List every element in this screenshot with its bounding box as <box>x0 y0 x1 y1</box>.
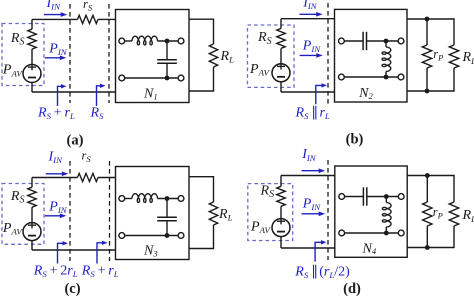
wire node to capacitor (c) <box>166 199 168 218</box>
svg-text:N1: N1 <box>143 87 158 102</box>
resistor rS (a) <box>78 15 99 23</box>
svg-text:RL: RL <box>462 208 474 224</box>
wire top source to rS (a) <box>32 18 78 20</box>
wire top source to N2 (b) <box>281 18 335 20</box>
capacitor series (d) <box>363 187 366 205</box>
resistor rS (c) <box>78 173 99 181</box>
wire bottom row (c) <box>125 235 178 237</box>
svg-text:PAV: PAV <box>2 63 23 79</box>
wire RS to source (b) <box>280 48 282 63</box>
svg-text:rP: rP <box>433 47 443 63</box>
node rP top (b) <box>425 17 430 22</box>
wire rS to N3 (c) <box>98 177 116 179</box>
wire source bottom (c) <box>31 241 33 250</box>
svg-text:RS ∥ (rL/2): RS ∥ (rL/2) <box>294 264 350 280</box>
svg-text:PIN: PIN <box>48 42 67 58</box>
resistor RL (c) <box>209 202 217 225</box>
svg-text:N3: N3 <box>143 244 158 259</box>
node top junction (c) <box>165 196 170 201</box>
wire node to capacitor (a) <box>166 41 168 60</box>
svg-text:RS: RS <box>10 31 25 48</box>
arrow IIN (a) <box>44 12 67 17</box>
port terminal bottom-right (d) <box>398 230 404 236</box>
wire source top (c) <box>31 178 33 188</box>
svg-text:IIN: IIN <box>302 0 318 11</box>
node bottom junction (a) <box>165 76 170 81</box>
arrow to RS+rL reference (a) <box>58 84 67 106</box>
svg-text:RS: RS <box>257 30 272 47</box>
svg-text:RS: RS <box>90 105 105 121</box>
dashed reference line input right (a) <box>108 4 110 103</box>
wire capacitor to bottom node (c) <box>166 221 168 236</box>
svg-text:RS: RS <box>260 184 275 201</box>
wire inductor to bottom node (d) <box>385 227 387 233</box>
inductor series (a) <box>132 36 158 45</box>
voltage source (c) <box>23 223 41 241</box>
svg-text:RS: RS <box>10 189 25 206</box>
wire source top (d) <box>280 176 282 187</box>
svg-text:PIN: PIN <box>48 200 67 216</box>
svg-text:(d): (d) <box>343 281 361 296</box>
wire RL to N3 bottom (c) <box>189 225 214 249</box>
voltage source (d) <box>272 219 290 237</box>
two-port network box N1 (a) <box>116 10 190 103</box>
source availability dashed box (a) <box>2 24 44 86</box>
dashed reference line input left (a) <box>69 4 71 103</box>
svg-text:PIN: PIN <box>302 39 321 55</box>
svg-text:RL: RL <box>218 207 233 223</box>
port terminal bottom-left (d) <box>339 230 345 236</box>
wire source top (a) <box>31 19 33 29</box>
wire N1 to RL top (a) <box>189 19 214 44</box>
wire capacitor to node (b) <box>367 40 399 42</box>
resistor RL (d) <box>449 202 458 226</box>
svg-text:RL: RL <box>462 50 474 66</box>
arrow IIN (b) <box>300 12 323 17</box>
wire node to inductor (d) <box>385 197 387 203</box>
wire bottom (c) <box>32 249 116 251</box>
svg-text:(b): (b) <box>346 132 364 148</box>
port terminal bottom-left (c) <box>119 233 125 239</box>
wire bottom row (b) <box>344 76 398 78</box>
wire inductor to node (c) <box>158 198 179 200</box>
resistor RS (c) <box>28 187 36 207</box>
wire rP branch bottom (b) <box>426 68 428 91</box>
port terminal top-left (b) <box>339 38 345 44</box>
node rP bottom (d) <box>425 245 430 250</box>
wire port to capacitor (b) <box>344 40 363 42</box>
port terminal top-left (d) <box>339 194 345 200</box>
wire rP branch top (b) <box>426 19 428 45</box>
port terminal bottom-right (c) <box>178 233 184 239</box>
wire rS to N1 (a) <box>98 18 116 20</box>
port terminal top-left (c) <box>119 196 125 202</box>
arrow to RS+rL reference (c) <box>97 241 108 264</box>
port terminal bottom-left (a) <box>119 75 125 81</box>
port terminal bottom-right (a) <box>178 75 184 81</box>
svg-text:N2: N2 <box>358 86 373 101</box>
wire port to inductor (a) <box>125 40 132 42</box>
wire port to inductor (c) <box>125 198 132 200</box>
wire rP branch top (d) <box>426 176 428 203</box>
port terminal bottom-right (b) <box>398 74 404 80</box>
svg-text:PAV: PAV <box>2 221 23 237</box>
wire source bottom (b) <box>280 82 282 92</box>
wire RS to source (c) <box>31 207 33 222</box>
svg-text:RS + rL: RS + rL <box>37 105 75 121</box>
svg-text:(c): (c) <box>64 281 80 296</box>
arrow IIN (c) <box>46 172 69 177</box>
wire bottom (a) <box>32 91 116 93</box>
port terminal top-right (d) <box>398 194 404 200</box>
wire N4 to RL top (d) <box>407 176 454 203</box>
resistor rP (d) <box>423 202 432 226</box>
wire top source to N4 (d) <box>281 175 335 177</box>
wire RL to N1 bottom (a) <box>189 67 214 91</box>
svg-text:PIN: PIN <box>302 196 321 212</box>
svg-text:RS ∥ rL: RS ∥ rL <box>295 105 330 121</box>
svg-text:PAV: PAV <box>250 219 271 235</box>
svg-text:RL: RL <box>220 49 235 65</box>
wire top source to rS (c) <box>32 177 78 179</box>
wire N3 to RL top (c) <box>189 177 214 202</box>
wire bottom (b) <box>281 91 335 93</box>
two-port network box N4 (d) <box>335 166 407 257</box>
node top junction (b) <box>384 39 389 44</box>
wire capacitor to node (d) <box>367 196 399 198</box>
node top junction (d) <box>384 194 389 199</box>
wire bottom (d) <box>281 247 335 249</box>
wire source bottom (d) <box>280 237 282 248</box>
inductor series (c) <box>132 194 158 203</box>
wire RS to source (a) <box>31 49 33 64</box>
wire bottom row (a) <box>125 77 178 79</box>
svg-text:(a): (a) <box>67 133 84 149</box>
svg-text:rP: rP <box>433 205 443 221</box>
arrow to RS par rL reference (b) <box>316 83 327 104</box>
voltage source (b) <box>272 64 290 82</box>
wire source bottom (a) <box>31 83 33 93</box>
resistor RS (d) <box>277 186 285 206</box>
arrow PIN (a) <box>45 56 66 61</box>
wire bottom row (d) <box>345 232 399 234</box>
arrow to RS par rL/2 reference (d) <box>315 240 326 262</box>
source availability dashed box (d) <box>248 184 293 241</box>
wire rP branch bottom (d) <box>426 226 428 248</box>
dashed reference line input (d) <box>327 160 329 260</box>
wire RL to N2 bottom (b) <box>407 68 454 91</box>
wire capacitor to bottom node (a) <box>166 63 168 78</box>
inductor shunt (d) <box>382 203 391 227</box>
node bottom junction (b) <box>384 75 389 80</box>
svg-text:rS: rS <box>83 0 93 12</box>
node bottom junction (c) <box>165 233 170 238</box>
arrow to RS reference (a) <box>97 84 106 106</box>
wire RL to N4 bottom (d) <box>407 226 454 248</box>
two-port network box N2 (b) <box>335 9 408 102</box>
svg-text:RS + rL: RS + rL <box>81 264 119 280</box>
two-port network box N3 (c) <box>116 167 190 260</box>
inductor shunt (b) <box>382 47 391 71</box>
svg-text:IIN: IIN <box>301 147 317 163</box>
wire source top (b) <box>280 19 282 29</box>
wire RS to source (d) <box>280 206 282 218</box>
dashed reference line input left (c) <box>69 161 71 261</box>
source availability dashed box (b) <box>248 25 295 87</box>
resistor RS (a) <box>28 29 36 49</box>
port terminal top-left (a) <box>119 38 125 44</box>
svg-text:IIN: IIN <box>48 149 64 165</box>
capacitor shunt (a) <box>157 60 177 63</box>
arrow IIN (d) <box>302 168 326 173</box>
node rP top (d) <box>425 173 430 178</box>
svg-text:rS: rS <box>82 149 92 165</box>
resistor rP (b) <box>422 45 431 68</box>
resistor RL (a) <box>209 44 217 67</box>
svg-text:PAV: PAV <box>249 62 270 78</box>
wire inductor to node (a) <box>158 40 179 42</box>
resistor RL (b) <box>449 45 458 68</box>
wire node to inductor (b) <box>385 41 387 47</box>
node rP bottom (b) <box>425 89 430 94</box>
wire N2 to RL top (b) <box>407 19 454 45</box>
capacitor series (b) <box>363 32 366 50</box>
port terminal top-right (a) <box>178 38 184 44</box>
arrow PIN (b) <box>300 53 323 58</box>
port terminal top-right (c) <box>178 196 184 202</box>
svg-text:IIN: IIN <box>46 0 62 12</box>
node top junction (a) <box>165 39 170 44</box>
svg-text:N4: N4 <box>362 242 377 257</box>
node bottom junction (d) <box>384 231 389 236</box>
voltage source (a) <box>23 65 41 83</box>
arrow PIN (d) <box>302 212 326 217</box>
capacitor shunt (c) <box>157 217 177 220</box>
wire inductor to bottom node (b) <box>385 72 387 78</box>
dashed reference line input (b) <box>327 3 329 104</box>
dashed reference line input right (c) <box>109 161 111 261</box>
port terminal top-right (b) <box>398 38 404 44</box>
arrow PIN (c) <box>45 214 66 219</box>
wire port to capacitor (d) <box>345 196 364 198</box>
port terminal bottom-left (b) <box>339 74 345 80</box>
arrow to RS+2rL reference (c) <box>58 241 69 263</box>
svg-text:RS + 2rL: RS + 2rL <box>33 264 78 280</box>
resistor RS (b) <box>277 28 285 48</box>
source availability dashed box (c) <box>2 184 44 245</box>
